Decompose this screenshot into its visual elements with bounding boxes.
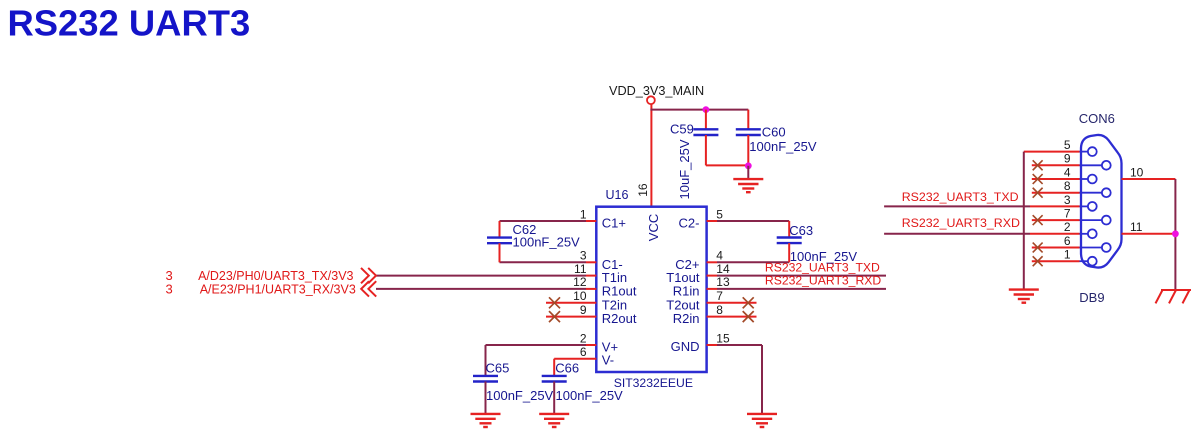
no-connect X pin 1 <box>1033 256 1043 266</box>
ground under GND bus <box>1009 290 1039 303</box>
wire DB9 pin 9 <box>1032 164 1080 166</box>
pin 11 wire <box>376 275 596 277</box>
capacitor C66 <box>542 376 567 382</box>
svg-text:11: 11 <box>1130 220 1143 234</box>
no-connect X pin 9 <box>1033 160 1043 170</box>
svg-text:10: 10 <box>573 289 587 303</box>
svg-text:1: 1 <box>1064 248 1071 262</box>
svg-text:8: 8 <box>716 303 723 317</box>
wire V- down lead <box>553 359 555 376</box>
wire VDD horizontal branch <box>650 109 748 111</box>
wire DB9 pin 5 <box>1024 151 1080 153</box>
pin 5 socket <box>1088 147 1097 156</box>
pin 15 wire <box>707 344 762 346</box>
ground under C60 <box>733 179 763 192</box>
pin 3 wire <box>500 261 597 263</box>
wire C59 lower lead <box>705 135 707 165</box>
ground under C65 <box>471 414 501 427</box>
svg-text:RS232 UART3: RS232 UART3 <box>8 2 251 43</box>
wire DB9 pin 11 <box>1122 233 1176 235</box>
pin 2 socket <box>1088 229 1097 238</box>
wire C63 lower lead <box>788 243 790 262</box>
wire C62 upper lead <box>499 221 501 238</box>
pin 4 socket <box>1088 175 1097 184</box>
pin 5 wire <box>707 220 790 222</box>
svg-text:RS232_UART3_RXD: RS232_UART3_RXD <box>902 216 1020 230</box>
svg-text:100nF_25V: 100nF_25V <box>486 388 554 403</box>
no-connect X pin 10 <box>549 297 560 308</box>
wire C63 upper lead <box>788 221 790 238</box>
pin 8 wire <box>707 316 757 318</box>
wire C60 lower lead <box>747 135 749 166</box>
svg-text:DB9: DB9 <box>1079 290 1104 305</box>
no-connect X pin 7 <box>1033 215 1043 225</box>
svg-text:VDD_3V3_MAIN: VDD_3V3_MAIN <box>609 84 704 98</box>
pin 1 socket <box>1088 257 1097 266</box>
power port circle VDD_3V3_MAIN <box>647 96 655 104</box>
pin 7 wire <box>707 302 757 304</box>
wire VDD vertical to VCC pin16 <box>650 104 652 207</box>
svg-text:4: 4 <box>716 249 723 263</box>
pin 3 socket <box>1088 202 1097 211</box>
svg-text:100nF_25V: 100nF_25V <box>749 139 817 154</box>
svg-text:11: 11 <box>574 262 587 276</box>
wire shield vertical <box>1174 179 1176 290</box>
wire C62 lower lead <box>499 243 501 262</box>
wire GND bus vertical <box>1023 152 1025 290</box>
no-connect X pin 4 <box>1033 174 1043 184</box>
svg-text:16: 16 <box>636 183 650 197</box>
wire C66 lower lead <box>553 382 555 414</box>
svg-text:100nF_25V: 100nF_25V <box>790 249 858 264</box>
svg-text:RS232_UART3_RXD: RS232_UART3_RXD <box>765 273 881 287</box>
wire C59/C60 bottom horizontal <box>706 164 748 166</box>
svg-text:6: 6 <box>1064 234 1071 248</box>
wire DB9 pin 6 <box>1032 247 1080 249</box>
svg-text:15: 15 <box>716 331 730 345</box>
op-amp U16 body <box>596 207 706 372</box>
wire V+ down lead <box>485 345 487 376</box>
port chevron RX in <box>361 281 376 296</box>
svg-text:C60: C60 <box>762 125 786 140</box>
junction dot at C59 top <box>703 106 710 113</box>
wire stub to ground <box>747 166 749 179</box>
pin 4 wire <box>707 261 790 263</box>
svg-text:R2in: R2in <box>673 311 700 326</box>
svg-text:3: 3 <box>166 282 173 297</box>
wire pin15 down <box>761 345 763 414</box>
wire DB9 pin 1 <box>1032 260 1080 262</box>
chassis ground <box>1156 290 1192 303</box>
svg-text:14: 14 <box>716 262 730 276</box>
port chevron TX out <box>361 268 376 283</box>
svg-text:100nF_25V: 100nF_25V <box>556 388 624 403</box>
svg-text:A/E23/PH1/UART3_RX/3V3: A/E23/PH1/UART3_RX/3V3 <box>200 283 356 297</box>
svg-text:9: 9 <box>580 303 587 317</box>
pin 10 wire <box>546 302 596 304</box>
svg-text:C59: C59 <box>670 121 694 136</box>
svg-text:8: 8 <box>1064 179 1071 193</box>
svg-text:U16: U16 <box>606 188 629 202</box>
svg-text:T2out: T2out <box>666 297 700 312</box>
svg-text:A/D23/PH0/UART3_TX/3V3: A/D23/PH0/UART3_TX/3V3 <box>198 269 353 283</box>
junction dot at C60 bottom <box>745 162 752 169</box>
pin 6 wire <box>554 358 596 360</box>
no-connect X pin 6 <box>1033 243 1043 253</box>
ground under pin 15 <box>747 414 777 427</box>
svg-text:2: 2 <box>1064 220 1071 234</box>
svg-text:10uF_25V: 10uF_25V <box>677 139 692 199</box>
svg-text:13: 13 <box>716 275 730 289</box>
wire C59 upper lead <box>705 110 707 130</box>
capacitor C60 <box>736 129 761 135</box>
capacitor C63 <box>777 238 802 244</box>
svg-text:C65: C65 <box>486 360 510 375</box>
wire C65 lower lead <box>485 382 487 414</box>
wire DB9 pin 3 RS232_UART3_TXD <box>884 205 1092 207</box>
svg-text:C1+: C1+ <box>602 216 626 231</box>
pin 14 wire <box>707 275 886 277</box>
ground under C66 <box>539 414 569 427</box>
pin 1 wire <box>500 220 597 222</box>
svg-text:R1out: R1out <box>602 283 637 298</box>
capacitor C62 <box>487 238 512 244</box>
wire DB9 pin 8 <box>1032 192 1080 194</box>
no-connect X pin 9 <box>549 311 560 322</box>
pin 7 socket <box>1102 216 1111 225</box>
svg-text:5: 5 <box>716 207 723 221</box>
wire DB9 pin 2 RS232_UART3_RXD <box>884 233 1092 235</box>
wire DB9 pin 7 <box>1032 219 1080 221</box>
svg-text:R1in: R1in <box>673 283 700 298</box>
svg-text:3: 3 <box>580 249 587 263</box>
svg-text:9: 9 <box>1064 152 1071 166</box>
svg-text:C66: C66 <box>555 360 579 375</box>
svg-text:V-: V- <box>602 353 614 368</box>
pin 8 socket <box>1102 188 1111 197</box>
svg-text:12: 12 <box>573 275 587 289</box>
svg-text:7: 7 <box>1064 207 1071 221</box>
svg-text:6: 6 <box>580 345 587 359</box>
svg-text:C2-: C2- <box>679 216 700 231</box>
svg-text:SIT3232EEUE: SIT3232EEUE <box>614 376 693 390</box>
svg-text:4: 4 <box>1064 165 1071 179</box>
svg-text:VCC: VCC <box>646 214 661 241</box>
svg-text:7: 7 <box>716 289 723 303</box>
wire DB9 pin 4 <box>1032 178 1080 180</box>
svg-text:10: 10 <box>1130 166 1144 180</box>
svg-text:3: 3 <box>1064 193 1071 207</box>
junction dot shield <box>1172 230 1179 237</box>
svg-text:RS232_UART3_TXD: RS232_UART3_TXD <box>902 190 1019 204</box>
connector CON6 DB9 body <box>1081 135 1122 268</box>
pin 6 socket <box>1102 243 1111 252</box>
svg-text:GND: GND <box>671 339 700 354</box>
svg-text:CON6: CON6 <box>1079 111 1115 126</box>
wire DB9 pin 10 <box>1122 178 1176 180</box>
svg-text:1: 1 <box>580 207 587 221</box>
capacitor C65 <box>473 376 498 382</box>
wire C60 upper lead <box>747 110 749 130</box>
svg-text:100nF_25V: 100nF_25V <box>513 235 581 250</box>
svg-text:2: 2 <box>580 331 587 345</box>
pin 2 wire <box>486 344 597 346</box>
pin 9 wire <box>546 316 596 318</box>
svg-text:T2in: T2in <box>602 297 627 312</box>
no-connect X pin 7 <box>743 297 754 308</box>
svg-text:R2out: R2out <box>602 311 637 326</box>
pin 13 wire <box>707 288 886 290</box>
capacitor C59 <box>693 129 718 135</box>
no-connect X pin 8 <box>743 311 754 322</box>
svg-text:5: 5 <box>1064 138 1071 152</box>
pin 12 wire <box>376 288 596 290</box>
no-connect X pin 8 <box>1033 188 1043 198</box>
pin 9 socket <box>1102 161 1111 170</box>
svg-text:C63: C63 <box>789 223 813 238</box>
